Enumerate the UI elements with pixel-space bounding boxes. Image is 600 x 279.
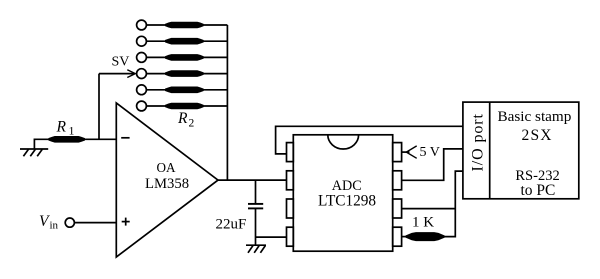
node contact 2 (circle) (137, 36, 147, 46)
svg-text:1 K: 1 K (412, 215, 434, 231)
svg-text:I/O port: I/O port (470, 113, 487, 171)
svg-text:2SX: 2SX (522, 127, 553, 144)
divider I/O port column (489, 102, 491, 199)
wire R2b to bus (203, 40, 227, 42)
capacitor C1 22uF (248, 204, 263, 209)
arrow 5V supply (406, 146, 416, 158)
wire feedback vertical (node at inverting input) (98, 74, 100, 140)
svg-text:R: R (56, 119, 67, 136)
ADC pin 7 (393, 171, 402, 190)
resistor R2a (165, 22, 203, 28)
op-amp U1 LM358 (116, 103, 218, 257)
svg-text:R: R (177, 110, 188, 127)
ADC pin 1 (287, 143, 294, 162)
wire contact2 to R2b (146, 40, 166, 42)
wire R2f to bus (203, 105, 227, 107)
wire contact6 to R2f (146, 105, 166, 107)
ADC pin 8 (393, 143, 402, 162)
wire R2a to bus (203, 24, 227, 26)
node contact 5 (circle) (137, 85, 147, 95)
node contact 3 (circle) (137, 53, 147, 63)
resistor R2e (165, 87, 203, 93)
resistor R2d (165, 71, 203, 77)
box U3 Basic stamp 2SX (463, 102, 579, 199)
wire ADC pin1 to I/O port (long top wire) (276, 126, 463, 154)
resistor R2b (165, 38, 203, 44)
ADC pin 4 (287, 227, 294, 246)
svg-text:in: in (50, 220, 59, 232)
wire contact1 to R2a (146, 24, 166, 26)
svg-text:LM358: LM358 (145, 176, 189, 192)
terminal Vin (circle) (65, 218, 74, 227)
node contact 6 (circle) (137, 101, 147, 111)
resistor R2c (165, 55, 203, 61)
ground GND2 (246, 245, 266, 253)
wire ADC pin6 to junction (402, 208, 456, 210)
op-amp minus input symbol (121, 137, 129, 139)
wire pin5 stub (402, 236, 407, 238)
wire 5V stub at pin 8 (402, 151, 410, 153)
ground GND1 (20, 149, 48, 156)
op-amp plus input symbol (122, 218, 130, 226)
wire R2d to bus (203, 73, 227, 75)
svg-text:Basic stamp: Basic stamp (498, 108, 572, 125)
ADC notch (328, 135, 359, 149)
wire 1K to junction vertical, then to I/O port (444, 171, 463, 237)
ADC U2 LTC1298 body (293, 135, 392, 251)
wire contact3 to R2c (146, 56, 166, 58)
svg-text:LTC1298: LTC1298 (318, 193, 376, 210)
resistor 1K (406, 233, 444, 241)
svg-text:1: 1 (69, 124, 75, 138)
wire ground to R1 (34, 139, 49, 149)
wire capacitor to ground node (255, 209, 257, 245)
svg-text:to PC: to PC (521, 182, 556, 199)
resistor R1 (49, 136, 85, 142)
ADC pin 5 (393, 227, 402, 246)
wire feedback bus vertical (226, 25, 228, 180)
resistor R2f (165, 103, 203, 109)
node contact 4 (circle, SV wiper) (137, 69, 147, 79)
svg-text:22uF: 22uF (216, 217, 247, 233)
wire R2e to bus (203, 89, 227, 91)
wire SV select with arrowhead (99, 70, 135, 78)
svg-text:ADC: ADC (332, 178, 362, 194)
svg-text:V: V (39, 213, 50, 230)
wire op-amp output (218, 179, 287, 181)
wire contact4 to R2d (146, 73, 166, 75)
wire contact5 to R2e (146, 89, 166, 91)
wire ADC pin7 to I/O port (402, 149, 463, 180)
wire R1 to op-amp inverting input (85, 138, 117, 140)
wire ground node to ADC pin4 (256, 236, 287, 238)
svg-text:OA: OA (157, 160, 177, 175)
node contact 1 (circle) (137, 20, 147, 30)
wire R2c to bus (203, 56, 227, 58)
svg-text:5 V: 5 V (420, 145, 440, 160)
svg-text:2: 2 (189, 118, 195, 130)
wire capacitor branch down (255, 180, 257, 203)
ADC pin 2 (287, 171, 294, 190)
svg-text:SV: SV (112, 55, 130, 70)
ADC pin 6 (393, 199, 402, 218)
wire Vin to op-amp non-inverting input (74, 222, 116, 224)
ADC pin 3 (287, 199, 294, 218)
